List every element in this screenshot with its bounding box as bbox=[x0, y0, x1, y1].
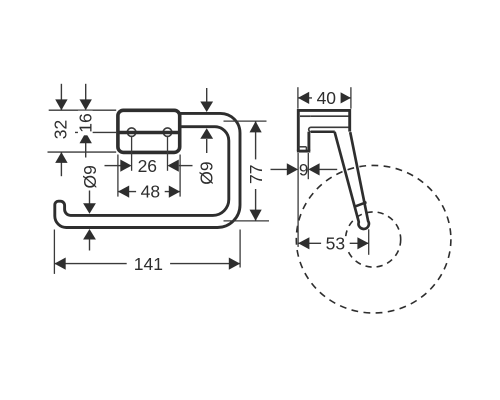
diameter 9 arm lower arrow bbox=[200, 128, 213, 153]
svg-text:Ø9: Ø9 bbox=[197, 161, 217, 184]
dimension 32 extension line bottom bbox=[48, 151, 117, 153]
svg-text:16: 16 bbox=[75, 113, 95, 132]
dimension 40 label bbox=[312, 88, 341, 108]
dimension 9 extension line wall bbox=[297, 153, 299, 247]
paper roll core dashed circle bbox=[346, 212, 401, 267]
dimension 141 label bbox=[127, 254, 170, 274]
dimension 26 right arrow bbox=[168, 160, 193, 172]
bracket side profile bbox=[297, 110, 350, 151]
dimension 48 line bbox=[118, 186, 180, 198]
holder arm side view bbox=[335, 132, 369, 229]
dimension 32 upper arrow bbox=[55, 84, 67, 110]
svg-text:141: 141 bbox=[134, 254, 163, 274]
dimension 9 left arrow bbox=[271, 163, 299, 175]
svg-text:48: 48 bbox=[141, 182, 160, 202]
dimension 141 line bbox=[54, 258, 240, 270]
dimension 141 extension line left bbox=[53, 230, 55, 274]
dimension 40 extension line right bbox=[350, 87, 352, 109]
dimension 40 line bbox=[298, 92, 351, 104]
dimension 32 lower arrow bbox=[55, 152, 67, 176]
dimension 16 lower arrow bbox=[80, 132, 92, 157]
dimension 26 extension line left hole bbox=[131, 136, 133, 171]
dimension 141 extension line right bbox=[239, 230, 241, 268]
svg-text:53: 53 bbox=[326, 234, 345, 254]
dimension 48 label bbox=[136, 182, 165, 202]
dimension 16 label bbox=[75, 111, 95, 136]
diameter 9 arm upper arrow bbox=[200, 88, 213, 112]
diameter 9 bar lower arrow bbox=[83, 229, 96, 251]
svg-text:Ø9: Ø9 bbox=[80, 165, 100, 188]
dimension 26 left arrow bbox=[105, 160, 132, 172]
screw hole right bbox=[163, 128, 172, 137]
dimension 77 extension line bottom bbox=[224, 220, 270, 222]
dimension 77 label bbox=[246, 159, 266, 189]
screw hole left bbox=[127, 128, 136, 137]
dimension 9 label bbox=[299, 160, 308, 179]
dimension 16 extension line bbox=[75, 131, 117, 133]
dimension 32 extension line top bbox=[49, 109, 117, 111]
plate divider line bbox=[118, 131, 180, 135]
svg-text:77: 77 bbox=[246, 164, 266, 183]
dimension 16 upper arrow bbox=[80, 84, 92, 110]
arm joint line bbox=[355, 202, 367, 206]
dimension 9 right arrow bbox=[308, 163, 337, 175]
dimension 26 extension line right hole bbox=[167, 136, 169, 171]
dimension 48 extension line right bbox=[179, 155, 181, 197]
svg-text:32: 32 bbox=[50, 120, 70, 139]
dimension 26 label bbox=[138, 156, 157, 176]
svg-text:9: 9 bbox=[299, 160, 308, 179]
wall plate front view bbox=[118, 110, 180, 152]
dimension 77 line bbox=[250, 121, 262, 221]
svg-text:40: 40 bbox=[317, 88, 337, 108]
diameter 9 bar label bbox=[80, 165, 100, 188]
dimension 53 line bbox=[298, 237, 369, 249]
dimension 77 extension line top bbox=[224, 120, 267, 122]
diameter 9 bar upper arrow bbox=[83, 191, 96, 214]
dimension 32 label bbox=[50, 120, 70, 139]
dimension 48 extension line left bbox=[117, 155, 119, 197]
diameter 9 arm label bbox=[197, 161, 217, 184]
paper roll outer dashed circle bbox=[296, 165, 451, 313]
dimension 40 extension line left bbox=[297, 87, 299, 109]
roll holder arm and bar front view bbox=[55, 113, 240, 227]
dimension 9 extension line plate bbox=[307, 153, 309, 179]
dimension 53 center tick bbox=[368, 229, 370, 255]
dimension 53 label bbox=[321, 234, 350, 254]
svg-text:26: 26 bbox=[138, 156, 157, 176]
